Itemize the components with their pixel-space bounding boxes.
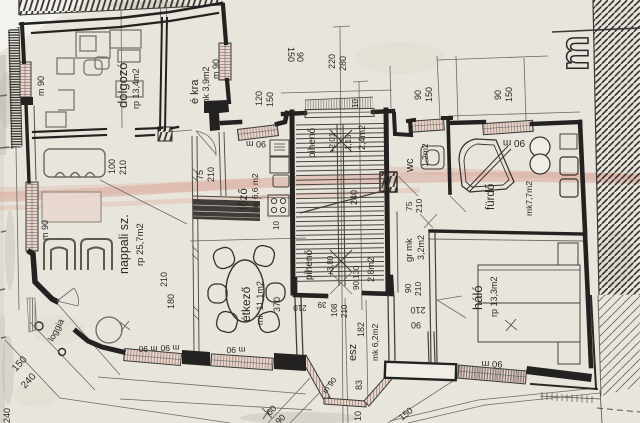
hatch strip: top-left neighbour wall xyxy=(19,0,222,15)
nappali armchair 2 xyxy=(81,239,112,270)
bay diagonal dim SE xyxy=(268,378,310,423)
wall: loggia SW diagonal xyxy=(76,331,123,352)
kitchen counter dark along south xyxy=(193,196,262,221)
svg-text:240: 240 xyxy=(349,190,359,205)
gr door swing xyxy=(420,214,437,228)
svg-text:dolgozó: dolgozó xyxy=(115,62,130,108)
loggia cross mark xyxy=(120,321,130,331)
halo door swing xyxy=(437,296,466,318)
svg-text:280: 280 xyxy=(338,56,348,71)
hatch strip: left edge neighbour wall xyxy=(8,27,22,149)
hatch region: top-right neighbour section xyxy=(593,0,640,295)
svg-text:180: 180 xyxy=(166,294,176,309)
svg-text:mk7,7m2: mk7,7m2 xyxy=(524,181,534,216)
wall: wc/furdo top joint xyxy=(443,116,451,120)
wall: furdo north east part xyxy=(532,122,580,124)
door block: wc threshold dark xyxy=(380,172,397,192)
wall: top exterior inner xyxy=(32,13,218,33)
svg-text:150: 150 xyxy=(286,47,296,62)
furdo door gap swing xyxy=(450,196,466,212)
pier: loggia/etkezo xyxy=(182,350,210,366)
furdo double washbasin xyxy=(530,137,550,174)
halo pillow top xyxy=(558,243,578,265)
svg-text:120: 120 xyxy=(254,91,264,106)
svg-text:2,8m2: 2,8m2 xyxy=(366,257,376,282)
pink scan streak main xyxy=(0,177,640,197)
wall: halo south outer line xyxy=(531,384,597,389)
wall: esz west double xyxy=(295,298,297,357)
svg-text:90 m: 90 m xyxy=(481,358,502,369)
wall: east ekra upper xyxy=(223,5,226,43)
svg-text:főző: főző xyxy=(238,188,250,210)
svg-text:240: 240 xyxy=(2,408,12,423)
svg-text:150: 150 xyxy=(424,87,434,102)
chair mid-left xyxy=(208,284,227,303)
stair cross mark lower xyxy=(330,250,352,272)
bottom terrace line A xyxy=(390,388,597,421)
svg-text:150: 150 xyxy=(504,87,514,102)
svg-text:210: 210 xyxy=(118,160,128,175)
wall: west nappali corner block xyxy=(30,252,56,301)
chair mid-right xyxy=(266,283,285,302)
cabinet bottom-left xyxy=(46,112,66,127)
chair bottom-right xyxy=(257,310,281,334)
wall: mid wall dolgozo/nappali west part xyxy=(33,129,106,132)
bottom hline under windows xyxy=(98,377,306,394)
chair top-left xyxy=(211,245,237,271)
svg-text:90: 90 xyxy=(413,90,423,100)
svg-text:pihenő: pihenő xyxy=(304,250,315,280)
svg-text:m 90: m 90 xyxy=(138,344,157,354)
entry band at stair top xyxy=(305,97,374,118)
nappali diag fold line xyxy=(100,180,187,224)
wall: bay south parapet xyxy=(385,362,457,380)
svg-text:83: 83 xyxy=(354,380,364,390)
svg-text:75: 75 xyxy=(404,201,414,211)
wall: kitchen north corner to stairwell xyxy=(277,113,287,124)
loggia post circle 2 xyxy=(59,349,66,356)
halo bed midline xyxy=(478,302,580,304)
dim vline x121 dolgozo xyxy=(121,10,122,128)
small rect bottom xyxy=(58,90,74,110)
svg-text:210: 210 xyxy=(340,304,349,318)
svg-text:m: m xyxy=(553,35,597,71)
dim vline x341 xyxy=(340,27,343,423)
svg-text:rp 13,3m2: rp 13,3m2 xyxy=(489,276,499,317)
loggia table circle xyxy=(96,317,122,343)
dim vline x438 xyxy=(437,56,440,119)
dim hline y30 far right xyxy=(552,28,640,32)
svg-text:210: 210 xyxy=(206,167,216,182)
svg-text:gr mk: gr mk xyxy=(404,238,415,262)
loggia post circle small xyxy=(35,322,43,330)
wall: stair top-right piece xyxy=(373,111,393,112)
wall: east exterior upper xyxy=(580,122,585,231)
side table xyxy=(57,58,74,74)
dim vline x457 xyxy=(456,56,458,120)
dashed line bottom right corner xyxy=(597,408,640,412)
svg-text:m 90: m 90 xyxy=(160,343,179,353)
nappali armchair 1 xyxy=(44,239,75,270)
svg-text:90: 90 xyxy=(411,320,421,330)
svg-text:esz: esz xyxy=(347,344,359,361)
svg-text:210: 210 xyxy=(410,305,425,315)
scan smudges xyxy=(0,1,360,423)
svg-text:wc: wc xyxy=(404,158,416,173)
entry porch hatch xyxy=(305,97,373,111)
svg-text:1,2m2: 1,2m2 xyxy=(420,143,430,167)
glazed door nappali hall xyxy=(158,127,172,141)
etkezo north thin line xyxy=(168,130,192,132)
paper lighter top-left corner xyxy=(0,0,88,52)
dim hline y107 above entry xyxy=(281,90,392,93)
svg-text:370: 370 xyxy=(272,297,282,312)
dim vline x525 xyxy=(524,58,526,120)
window halo south-west (90 m) xyxy=(458,365,527,384)
svg-text:pihenő: pihenő xyxy=(307,128,318,158)
wall: halo north inner line xyxy=(430,239,583,241)
wall: west nappali inner face xyxy=(34,106,36,180)
window E ekra (m 90) xyxy=(219,43,231,80)
svg-text:1,15: 1,15 xyxy=(344,134,353,150)
pink scan streak faint lower xyxy=(0,190,420,208)
chair dolgozo xyxy=(84,60,102,75)
kitchen south boundary line xyxy=(262,197,292,198)
chair bottom-left xyxy=(215,310,239,334)
wall: divider dolgozo/ekra xyxy=(160,18,162,130)
loggia lower diagonal to bay xyxy=(60,398,230,423)
svg-text:90,130: 90,130 xyxy=(352,265,361,290)
svg-text:m 90: m 90 xyxy=(226,345,245,355)
window bay left diagonal xyxy=(300,355,330,400)
svg-text:mk 6,2m2: mk 6,2m2 xyxy=(370,323,380,361)
loggia edge diagonal long xyxy=(56,302,120,375)
wall: wc north xyxy=(408,120,414,121)
wall: halo south xyxy=(526,366,592,382)
desk rect A xyxy=(76,32,110,58)
kitchen west wall thin double xyxy=(219,132,226,196)
bottom hline 2 xyxy=(120,399,312,410)
wall: stairwell west xyxy=(292,112,293,293)
svg-text:+3,80: +3,80 xyxy=(326,255,335,276)
bottom terrace line B xyxy=(408,393,600,423)
nappali door swing lines xyxy=(57,288,79,306)
window loggia south (m 90) xyxy=(124,349,182,366)
left margin dark dashes xyxy=(0,95,9,338)
wall: east ekra lower block xyxy=(227,80,229,102)
desk inner xyxy=(80,36,96,51)
window W nappali (m 90) xyxy=(26,182,38,251)
svg-text:108: 108 xyxy=(330,303,339,317)
extra chair mid xyxy=(95,57,109,69)
wall: esz east double xyxy=(388,296,389,360)
window etkezo south (m 90) xyxy=(211,354,274,370)
wall: stairwell south with corners xyxy=(295,279,326,296)
svg-text:m 90: m 90 xyxy=(36,76,46,96)
desk rect B xyxy=(110,30,141,48)
furdo corner bathtub xyxy=(459,139,514,192)
halo bed inner line xyxy=(478,269,580,271)
wall: east outer line at corner xyxy=(591,296,596,388)
window bay bottom xyxy=(324,398,366,407)
dim vline x164 above top wall xyxy=(160,0,161,25)
svg-text:90 m: 90 m xyxy=(246,139,266,149)
svg-text:10: 10 xyxy=(272,221,281,230)
dim tick at x341 top xyxy=(333,26,350,27)
window bay right diagonal xyxy=(364,375,392,406)
svg-text:fürdő: fürdő xyxy=(485,184,497,210)
wall: gr east boundary thin xyxy=(397,212,398,292)
wall: stairwell east xyxy=(386,110,388,291)
dim hline furdo top outer xyxy=(448,112,580,116)
loggia dim diagonal A xyxy=(5,340,60,398)
nappali rug pink xyxy=(42,192,101,222)
wall: wc/furdo divider xyxy=(448,118,450,193)
svg-text:39: 39 xyxy=(317,300,326,309)
svg-text:é kra: é kra xyxy=(189,79,201,104)
stair break diagonal xyxy=(300,190,386,213)
wall: wc NW step xyxy=(394,114,411,135)
kitchen door swing xyxy=(196,131,216,156)
bay diagonal dim SE2 xyxy=(290,382,330,423)
furdo corner shelf xyxy=(560,134,577,149)
dim hline under kitchen counter xyxy=(190,238,306,241)
pier: etkezo/bay xyxy=(274,353,306,371)
dim vline x360 xyxy=(359,82,362,310)
svg-text:150: 150 xyxy=(265,92,275,107)
dim vline left edge xyxy=(16,148,19,310)
svg-text:rp 13,4m2: rp 13,4m2 xyxy=(131,68,141,109)
svg-text:210: 210 xyxy=(413,282,423,296)
svg-text:10: 10 xyxy=(353,411,363,421)
halo bed outline xyxy=(478,265,580,342)
cabinet right xyxy=(116,81,143,97)
partition hatch ticks xyxy=(192,168,199,320)
dim vline x367 esz xyxy=(366,300,368,405)
stair mid stringer xyxy=(337,124,339,286)
dim vline x390 entry xyxy=(390,66,391,108)
wall: stair top-left piece xyxy=(283,113,305,114)
wall: hall/ekra south stub xyxy=(172,127,178,128)
svg-text:182: 182 xyxy=(356,322,366,337)
wall: mid wall east part with pier xyxy=(136,128,162,129)
halo cross mark xyxy=(505,319,517,331)
svg-text:90 m: 90 m xyxy=(503,137,525,148)
svg-text:90: 90 xyxy=(493,90,503,100)
loggia rail hatch left xyxy=(27,298,37,332)
window W top-left (m 90) xyxy=(20,62,31,97)
wall: kitchen north xyxy=(222,122,240,123)
svg-text:+2,01: +2,01 xyxy=(328,132,337,153)
svg-text:3,2m2: 3,2m2 xyxy=(416,235,426,260)
hatch region: bottom-right xyxy=(598,295,640,396)
svg-text:10: 10 xyxy=(351,99,360,108)
dim tick x360 top xyxy=(353,81,368,82)
stair treads xyxy=(296,124,384,126)
dim vline x346 esz xyxy=(345,298,348,423)
wc door swing xyxy=(398,176,418,196)
svg-text:100: 100 xyxy=(107,159,117,174)
svg-text:m 90: m 90 xyxy=(211,59,221,79)
window furdo north (90 m) xyxy=(483,120,534,134)
wall: west dolgozo upper xyxy=(22,24,24,62)
dim tick bar bottom right xyxy=(540,392,601,403)
wall: bay parapet inner tick xyxy=(428,332,429,363)
svg-text:210: 210 xyxy=(159,272,169,287)
stair cross mark upper xyxy=(330,130,352,152)
wall: halo north xyxy=(430,231,583,234)
chair top-right xyxy=(252,244,276,268)
dining table xyxy=(226,260,264,322)
bay cross mark xyxy=(262,407,272,419)
partition wall nappali/kitchen thin double xyxy=(192,136,199,352)
wall: halo west thin double xyxy=(429,233,431,362)
svg-text:210: 210 xyxy=(293,303,307,312)
halo pillow bottom xyxy=(558,342,580,364)
window kitchen north (90 m) xyxy=(237,125,278,141)
wc toilet xyxy=(421,146,444,169)
loggia dim diagonal B xyxy=(30,322,95,390)
svg-text:75: 75 xyxy=(195,170,205,180)
wall: top exterior outer xyxy=(20,3,222,24)
svg-text:rp 25,7m2: rp 25,7m2 xyxy=(135,223,146,266)
vline bottom right corner xyxy=(600,390,602,423)
svg-text:210: 210 xyxy=(414,199,424,213)
svg-text:mk 6,6 m2: mk 6,6 m2 xyxy=(250,173,260,213)
svg-text:2,4m2: 2,4m2 xyxy=(357,125,367,150)
window wc north xyxy=(411,119,445,132)
dim hline y58 right xyxy=(437,56,548,60)
svg-text:étkező: étkező xyxy=(239,286,253,322)
svg-text:mk 3,9m2: mk 3,9m2 xyxy=(201,66,211,106)
wall: west nappali xyxy=(26,104,29,182)
paper left edge shade xyxy=(0,55,6,155)
extra shelf top xyxy=(118,50,140,62)
svg-text:90: 90 xyxy=(295,52,305,62)
nappali sofa xyxy=(44,149,105,177)
wall: furdo north west part xyxy=(450,122,484,123)
svg-text:háló: háló xyxy=(470,285,485,310)
kitchen stove 4 burners xyxy=(268,195,289,216)
dim hline left low xyxy=(2,147,22,148)
svg-text:90: 90 xyxy=(403,283,413,293)
svg-text:220: 220 xyxy=(327,54,337,69)
svg-text:mk 11,1m2: mk 11,1m2 xyxy=(255,281,265,325)
wall: west stub below window xyxy=(21,97,33,105)
bottom right diag dim xyxy=(388,370,470,423)
kitchen tall unit row east xyxy=(268,140,289,216)
wall: ekra SE corner block xyxy=(204,100,229,131)
furdo washer units xyxy=(560,157,578,197)
svg-text:m 90: m 90 xyxy=(40,220,50,240)
wall: halo east xyxy=(585,234,591,366)
svg-text:nappali sz.: nappali sz. xyxy=(117,214,131,274)
